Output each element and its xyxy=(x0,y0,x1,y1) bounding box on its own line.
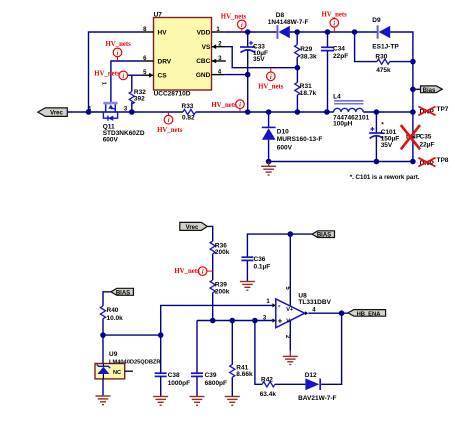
wire pin5 supply xyxy=(289,234,291,305)
svg-text:1: 1 xyxy=(101,82,107,85)
svg-text:475k: 475k xyxy=(376,67,391,74)
resistor R42 xyxy=(260,377,277,398)
svg-text:0.1µF: 0.1µF xyxy=(254,264,271,271)
node C33 on main wire xyxy=(245,109,251,115)
node GND pin / C33 column xyxy=(224,72,250,78)
resistor R30 xyxy=(355,32,413,74)
wire R32 column xyxy=(131,75,133,91)
svg-text:HV_nets: HV_nets xyxy=(322,12,348,19)
wire DRV to Q11 gate xyxy=(111,61,141,104)
svg-text:1000pF: 1000pF xyxy=(168,380,190,387)
capacitor C33 (polarized) xyxy=(240,32,268,112)
svg-text:BIAS: BIAS xyxy=(116,290,130,296)
wire between R36 and R39 xyxy=(212,254,214,280)
node bus R42 xyxy=(252,318,258,324)
svg-text:C35: C35 xyxy=(420,133,432,140)
DNP capacitor C35 xyxy=(401,125,435,149)
wire R40 node to C38 node xyxy=(103,334,161,336)
svg-text:HV_nets: HV_nets xyxy=(174,268,200,275)
DNP test point TP8 xyxy=(418,157,449,167)
port HB_ENA xyxy=(348,310,386,318)
capacitor C101 (polarized, rework) xyxy=(369,109,399,164)
node R31 on main wire xyxy=(295,109,301,115)
svg-text:LM4040D25QDBZR: LM4040D25QDBZR xyxy=(109,359,161,365)
diode D9 ES1J-TP xyxy=(372,17,399,51)
node R30 right xyxy=(410,59,416,65)
svg-text:-: - xyxy=(278,301,281,310)
svg-text:600V: 600V xyxy=(103,136,119,143)
svg-text:+: + xyxy=(278,317,283,326)
wire VDD rail y=32 xyxy=(224,31,276,33)
svg-text:38.3k: 38.3k xyxy=(300,54,317,61)
svg-text:63.4k: 63.4k xyxy=(260,391,277,398)
wire BIAS to R40 xyxy=(103,292,111,306)
node bus R39 xyxy=(210,318,216,324)
op-amp U7 body UCC28710D xyxy=(154,11,212,97)
svg-text:i: i xyxy=(168,117,170,124)
svg-text:Vrec: Vrec xyxy=(186,225,199,231)
wire R39 to input bus xyxy=(212,293,214,321)
node TP7 xyxy=(410,109,416,115)
pin 8 HV xyxy=(141,27,154,33)
wire VS to divider junction xyxy=(226,47,298,68)
svg-text:i: i xyxy=(270,74,272,81)
ground C38 xyxy=(153,397,168,406)
svg-text:C36: C36 xyxy=(254,256,266,263)
svg-text:5: 5 xyxy=(284,286,290,290)
diode D10 MURS160-13-F xyxy=(262,109,323,161)
pin 2 ground xyxy=(284,321,290,356)
port Vrec xyxy=(38,108,68,117)
svg-text:R42: R42 xyxy=(261,377,273,384)
svg-text:200k: 200k xyxy=(215,249,230,256)
svg-text:1: 1 xyxy=(266,299,270,305)
capacitor C38 xyxy=(155,335,190,396)
op-amp U1 TL331DBV U8 xyxy=(276,293,332,328)
net label HV_nets divider xyxy=(174,267,212,276)
node VDD-R30 xyxy=(352,29,358,35)
svg-text:4: 4 xyxy=(312,307,316,313)
svg-text:Vrec: Vrec xyxy=(50,111,63,117)
ground U8 xyxy=(283,356,298,364)
svg-text:392: 392 xyxy=(134,96,145,103)
SECTION-BOTTOM xyxy=(95,222,386,405)
net label HV_nets on VDD rail xyxy=(221,13,247,32)
wire bus to R42 xyxy=(255,321,262,385)
svg-text:R40: R40 xyxy=(107,307,119,314)
wire input bus y=320.5 xyxy=(197,320,272,322)
port Vrec bottom xyxy=(180,222,208,231)
node 4 xyxy=(86,106,92,114)
node C34/L4 on main wire xyxy=(324,109,330,115)
svg-text:DRV: DRV xyxy=(158,58,172,65)
capacitor C39 xyxy=(191,321,227,397)
pin 4 output xyxy=(305,307,348,315)
pin 6 DRV xyxy=(141,56,154,62)
node output xyxy=(339,310,345,316)
pin 1 inverting input xyxy=(266,299,275,308)
wire CS to R32 top xyxy=(128,74,141,76)
resistor R29 xyxy=(295,32,317,68)
node VDD-R29 xyxy=(294,29,300,35)
svg-text:GND: GND xyxy=(196,72,211,79)
svg-text:i: i xyxy=(122,73,124,80)
svg-text:HV_nets: HV_nets xyxy=(94,71,120,78)
port BIAS right xyxy=(312,231,335,239)
resistor R36 xyxy=(210,241,230,256)
resistor R33 xyxy=(182,103,196,122)
svg-text:*: * xyxy=(381,122,384,129)
pin 5 CS xyxy=(141,70,154,78)
svg-text:V+: V+ xyxy=(286,307,294,313)
svg-text:10.0k: 10.0k xyxy=(107,315,124,322)
pin 4 GND xyxy=(212,69,225,75)
svg-text:22pF: 22pF xyxy=(333,53,348,60)
svg-text:22µF: 22µF xyxy=(420,142,435,149)
svg-text:BAV21W-7-F: BAV21W-7-F xyxy=(298,395,336,402)
net label HV_nets left of L4 xyxy=(211,100,244,112)
resistor R31 xyxy=(295,68,317,112)
svg-text:35V: 35V xyxy=(253,56,265,63)
node pin1/C38/R40 xyxy=(158,332,164,338)
svg-text:i: i xyxy=(117,50,119,57)
svg-text:Bias: Bias xyxy=(423,88,436,94)
svg-text:BIAS: BIAS xyxy=(317,233,331,239)
inductor L4 xyxy=(333,93,370,127)
net label HV_nets on VS wire xyxy=(258,68,284,91)
diode D8 1N4148W-7-F xyxy=(268,12,309,39)
ground C39 xyxy=(190,397,205,406)
node R40/U9 xyxy=(100,332,106,338)
transistor Q2 MOSFET Q11 xyxy=(101,82,145,144)
wire R40 to node xyxy=(102,319,104,335)
svg-text:D8: D8 xyxy=(276,12,285,19)
svg-text:D12: D12 xyxy=(305,372,317,379)
SECTION-TOP xyxy=(38,11,449,181)
resistor R39 xyxy=(210,280,230,295)
svg-text:D9: D9 xyxy=(372,17,381,24)
svg-text:NC: NC xyxy=(113,370,121,376)
svg-text:CS: CS xyxy=(158,73,168,80)
resistor R41 xyxy=(230,321,253,397)
svg-text:200k: 200k xyxy=(215,288,230,295)
wire HV net from pin 8 to node 4 xyxy=(89,32,141,112)
capacitor C34 xyxy=(321,32,348,112)
pin 3 non-inverting input xyxy=(263,316,276,323)
svg-text:MURS160-13-F: MURS160-13-F xyxy=(277,136,323,143)
svg-text:600V: 600V xyxy=(277,145,293,152)
svg-text:35V: 35V xyxy=(381,142,393,149)
svg-text:HV: HV xyxy=(158,29,168,36)
svg-text:HB_ENA: HB_ENA xyxy=(357,311,382,317)
svg-text:U9: U9 xyxy=(109,351,118,358)
svg-text:R33: R33 xyxy=(182,103,194,110)
svg-text:HV_nets: HV_nets xyxy=(258,83,284,90)
resistor R40 xyxy=(100,306,123,322)
svg-text:i: i xyxy=(202,269,204,276)
svg-text:HV_nets: HV_nets xyxy=(221,13,247,20)
svg-text:D10: D10 xyxy=(277,128,289,135)
svg-text:UCC28710D: UCC28710D xyxy=(154,90,191,97)
port BIAS left xyxy=(111,288,134,296)
ground C36 xyxy=(240,282,255,291)
ground top section xyxy=(261,162,276,176)
net label HV_nets on DRV wire xyxy=(106,41,132,61)
svg-text:2: 2 xyxy=(284,335,290,339)
node D10 / ground xyxy=(266,159,272,165)
svg-text:6800pF: 6800pF xyxy=(205,380,227,387)
svg-text:8.66k: 8.66k xyxy=(236,371,253,378)
svg-text:HV_nets: HV_nets xyxy=(157,127,183,134)
node TP8 xyxy=(410,159,416,165)
wire node to U9 xyxy=(102,335,104,363)
DNP test point TP7 xyxy=(418,106,449,116)
svg-text:CBC: CBC xyxy=(196,58,210,65)
svg-text:C34: C34 xyxy=(333,46,345,53)
svg-text:0.82: 0.82 xyxy=(182,114,195,121)
svg-text:1N4148W-7-F: 1N4148W-7-F xyxy=(268,19,309,26)
node BIAS / pin5 xyxy=(288,231,294,237)
net label HV_nets on CS wire xyxy=(94,71,127,80)
resistor R32 xyxy=(129,89,146,104)
ground R41 xyxy=(225,397,240,406)
svg-text:TP7: TP7 xyxy=(437,106,449,113)
wire main rail y=112 xyxy=(67,111,183,113)
svg-text:TP8: TP8 xyxy=(437,157,449,164)
net label HV_nets right of D8 xyxy=(322,12,348,32)
svg-text:ES1J-TP: ES1J-TP xyxy=(372,44,399,51)
wire R42 to D12 xyxy=(275,383,306,385)
svg-text:L4: L4 xyxy=(333,93,341,100)
svg-text:VS: VS xyxy=(202,44,211,51)
wire output feedback down xyxy=(321,313,341,384)
capacitor C36 xyxy=(241,256,270,281)
svg-text:C39: C39 xyxy=(205,372,217,379)
node VDD-C34 xyxy=(325,29,331,35)
wire pin1 net xyxy=(161,305,273,335)
wire Vrec to R36 column xyxy=(207,226,212,241)
net label HV_nets below R33 wire xyxy=(157,112,183,134)
ground U9 xyxy=(96,396,111,405)
pin 1 VDD xyxy=(212,27,225,33)
svg-text:i: i xyxy=(333,20,335,27)
svg-text:HV_nets: HV_nets xyxy=(211,102,237,109)
svg-text:i: i xyxy=(239,102,241,109)
node VDD-C33 xyxy=(245,29,251,35)
node bus R41 xyxy=(230,318,236,324)
wire BIAS rail top xyxy=(247,234,312,256)
svg-text:TL331DBV: TL331DBV xyxy=(298,299,331,306)
wire U9 to ground xyxy=(102,379,104,396)
svg-text:C38: C38 xyxy=(168,372,180,379)
wire lower rail y=161.5 xyxy=(269,161,413,163)
shunt reference U9 LM4040 xyxy=(95,351,161,379)
node VS divider xyxy=(295,65,301,71)
pin 3 CBC (no-connect stub) xyxy=(212,56,226,63)
svg-text:i: i xyxy=(241,22,243,29)
svg-text:R29: R29 xyxy=(300,46,312,53)
svg-text:R30: R30 xyxy=(375,54,387,61)
pin 2 VS xyxy=(212,41,226,49)
node 3 xyxy=(124,106,135,114)
svg-text:100µH: 100µH xyxy=(333,121,353,128)
diode D12 BAV21W-7-F xyxy=(298,372,336,402)
port Bias xyxy=(410,86,442,94)
svg-text:*. C101 is a rework part.: *. C101 is a rework part. xyxy=(350,174,420,181)
svg-text:VDD: VDD xyxy=(197,29,211,36)
svg-text:HV_nets: HV_nets xyxy=(106,41,132,48)
svg-text:18.7k: 18.7k xyxy=(300,90,317,97)
svg-text:U7: U7 xyxy=(154,11,163,18)
